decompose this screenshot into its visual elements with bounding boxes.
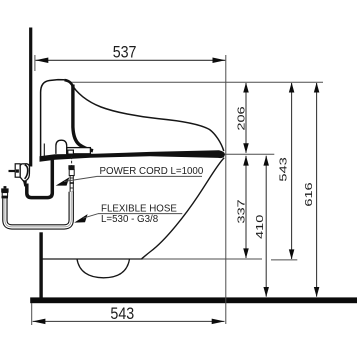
FLEXIBLE HOSE leader bbox=[74, 214, 87, 223]
dimension 543 bottom bbox=[32, 303, 225, 325]
bowl bottom line bbox=[40, 258, 143, 260]
top reference line bbox=[70, 81, 323, 83]
power cord bbox=[27, 159, 53, 198]
hinge thick L bbox=[73, 85, 93, 151]
pedestal back bbox=[39, 232, 42, 297]
plug body bbox=[20, 164, 29, 182]
dimension 206 bbox=[235, 83, 248, 154]
hose fitting G3/8 bbox=[1, 186, 8, 198]
plug pin bbox=[9, 170, 16, 172]
dimension 337 bbox=[235, 156, 248, 259]
lid top curve bbox=[71, 84, 224, 151]
svg-text:L=530 - G3/8: L=530 - G3/8 bbox=[101, 214, 159, 225]
dimension 543 right bbox=[278, 83, 295, 260]
svg-text:537: 537 bbox=[113, 43, 137, 61]
seat/rim thick bar bbox=[40, 150, 225, 162]
dimension 616 bbox=[303, 83, 320, 298]
seat level tick bbox=[225, 153, 275, 155]
inlet notch bbox=[68, 150, 74, 154]
bowl front curve bbox=[142, 158, 225, 259]
svg-text:543: 543 bbox=[110, 305, 134, 323]
seat unit back body outline bbox=[41, 80, 73, 157]
hose connector / valve bbox=[68, 165, 74, 192]
svg-text:206: 206 bbox=[235, 106, 246, 130]
dome (water inlet) bbox=[56, 140, 67, 154]
dimension 537 bbox=[35, 43, 226, 71]
inlet box bbox=[67, 148, 91, 154]
dimension 410 bbox=[254, 156, 269, 297]
svg-text:POWER CORD L=1000: POWER CORD L=1000 bbox=[100, 166, 204, 177]
extension line front (537/543) bbox=[225, 55, 227, 324]
floor bbox=[30, 297, 357, 303]
POWER CORD leader bbox=[56, 177, 70, 185]
svg-text:337: 337 bbox=[235, 199, 246, 223]
svg-text:410: 410 bbox=[254, 215, 265, 239]
plug face bbox=[15, 164, 20, 177]
svg-text:543: 543 bbox=[278, 157, 289, 181]
trap arc bbox=[77, 259, 130, 278]
wall bbox=[29, 28, 32, 167]
tick 543 bottom bbox=[271, 259, 297, 261]
seat back inner line bbox=[43, 144, 45, 158]
bowl bottom extension bbox=[142, 258, 262, 260]
plug boot bbox=[23, 180, 27, 187]
dashed connector line bbox=[71, 157, 73, 168]
flexible hose bbox=[5, 192, 71, 227]
svg-text:616: 616 bbox=[303, 182, 314, 206]
step knot bbox=[65, 80, 73, 86]
